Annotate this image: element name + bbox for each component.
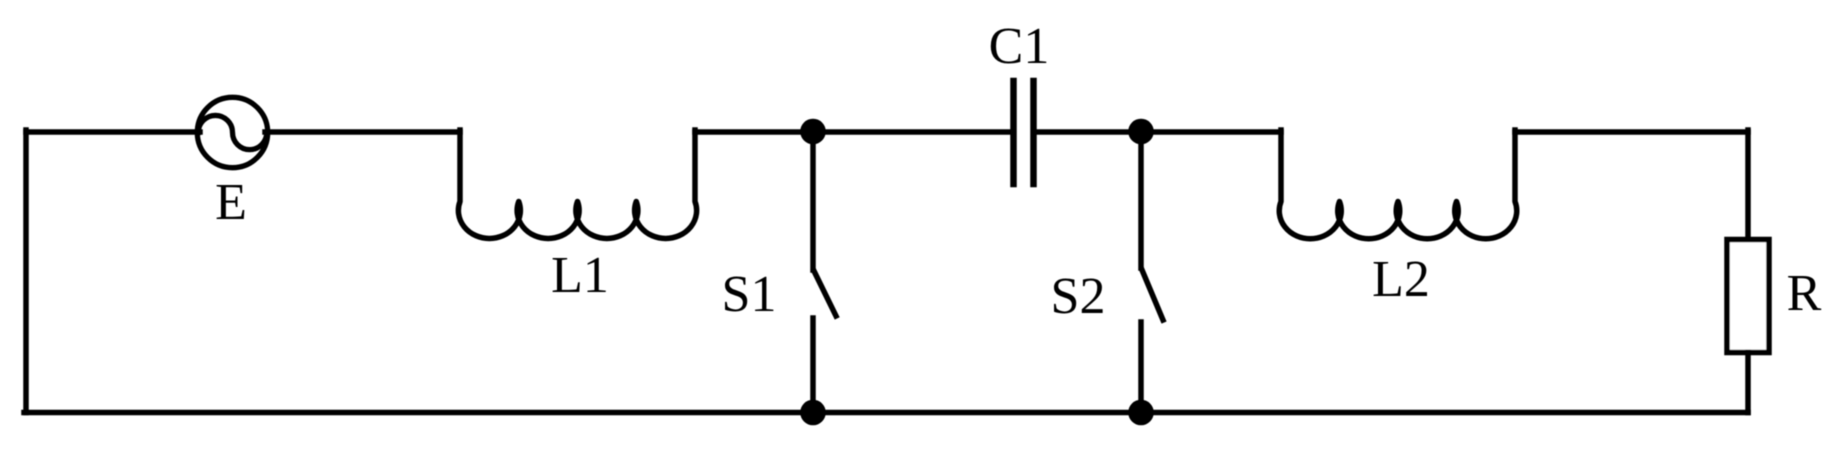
capacitor C1 right plate: [1030, 81, 1037, 184]
svg-text:R: R: [1787, 265, 1822, 322]
wire from resistor R to bottom rail: [1745, 353, 1751, 413]
capacitor C1 left plate: [1010, 81, 1017, 184]
switch S1 blade: [814, 271, 836, 316]
junction dot bottom of S2: [1128, 400, 1154, 426]
wire right vertical down to resistor R: [1745, 130, 1751, 239]
wire from L2 to top-right corner: [1515, 129, 1748, 135]
svg-text:E: E: [215, 174, 247, 231]
node B junction dot (top of S2): [1128, 119, 1154, 145]
junction dot bottom of S1: [800, 400, 826, 426]
wire from L1 to node A and capacitor C1 left plate: [695, 129, 1010, 135]
switch S2 upper wire: [1138, 132, 1144, 268]
switch S1 upper wire: [810, 132, 816, 270]
svg-text:C1: C1: [989, 18, 1050, 75]
svg-text:L1: L1: [551, 247, 609, 304]
AC source E (circle with sine): [197, 97, 267, 167]
wire bottom rail: [24, 410, 1748, 416]
inductor L2: [1279, 130, 1517, 239]
node A junction dot (top of S1): [800, 119, 826, 145]
resistor R body: [1727, 240, 1769, 353]
svg-text:L2: L2: [1372, 251, 1430, 308]
wire top-left from left corner to source E: [26, 129, 200, 135]
svg-text:S2: S2: [1051, 268, 1106, 325]
wire from C1 right plate to node B: [1037, 129, 1141, 135]
switch S2 blade: [1142, 270, 1163, 320]
wire left vertical side: [23, 130, 29, 413]
wire from node B to inductor L2: [1141, 129, 1281, 135]
svg-text:S1: S1: [722, 266, 777, 323]
switch S1 lower wire: [810, 318, 816, 413]
wire from source E to inductor L1: [265, 129, 460, 135]
switch S2 lower wire: [1138, 322, 1144, 413]
inductor L1: [458, 130, 696, 238]
